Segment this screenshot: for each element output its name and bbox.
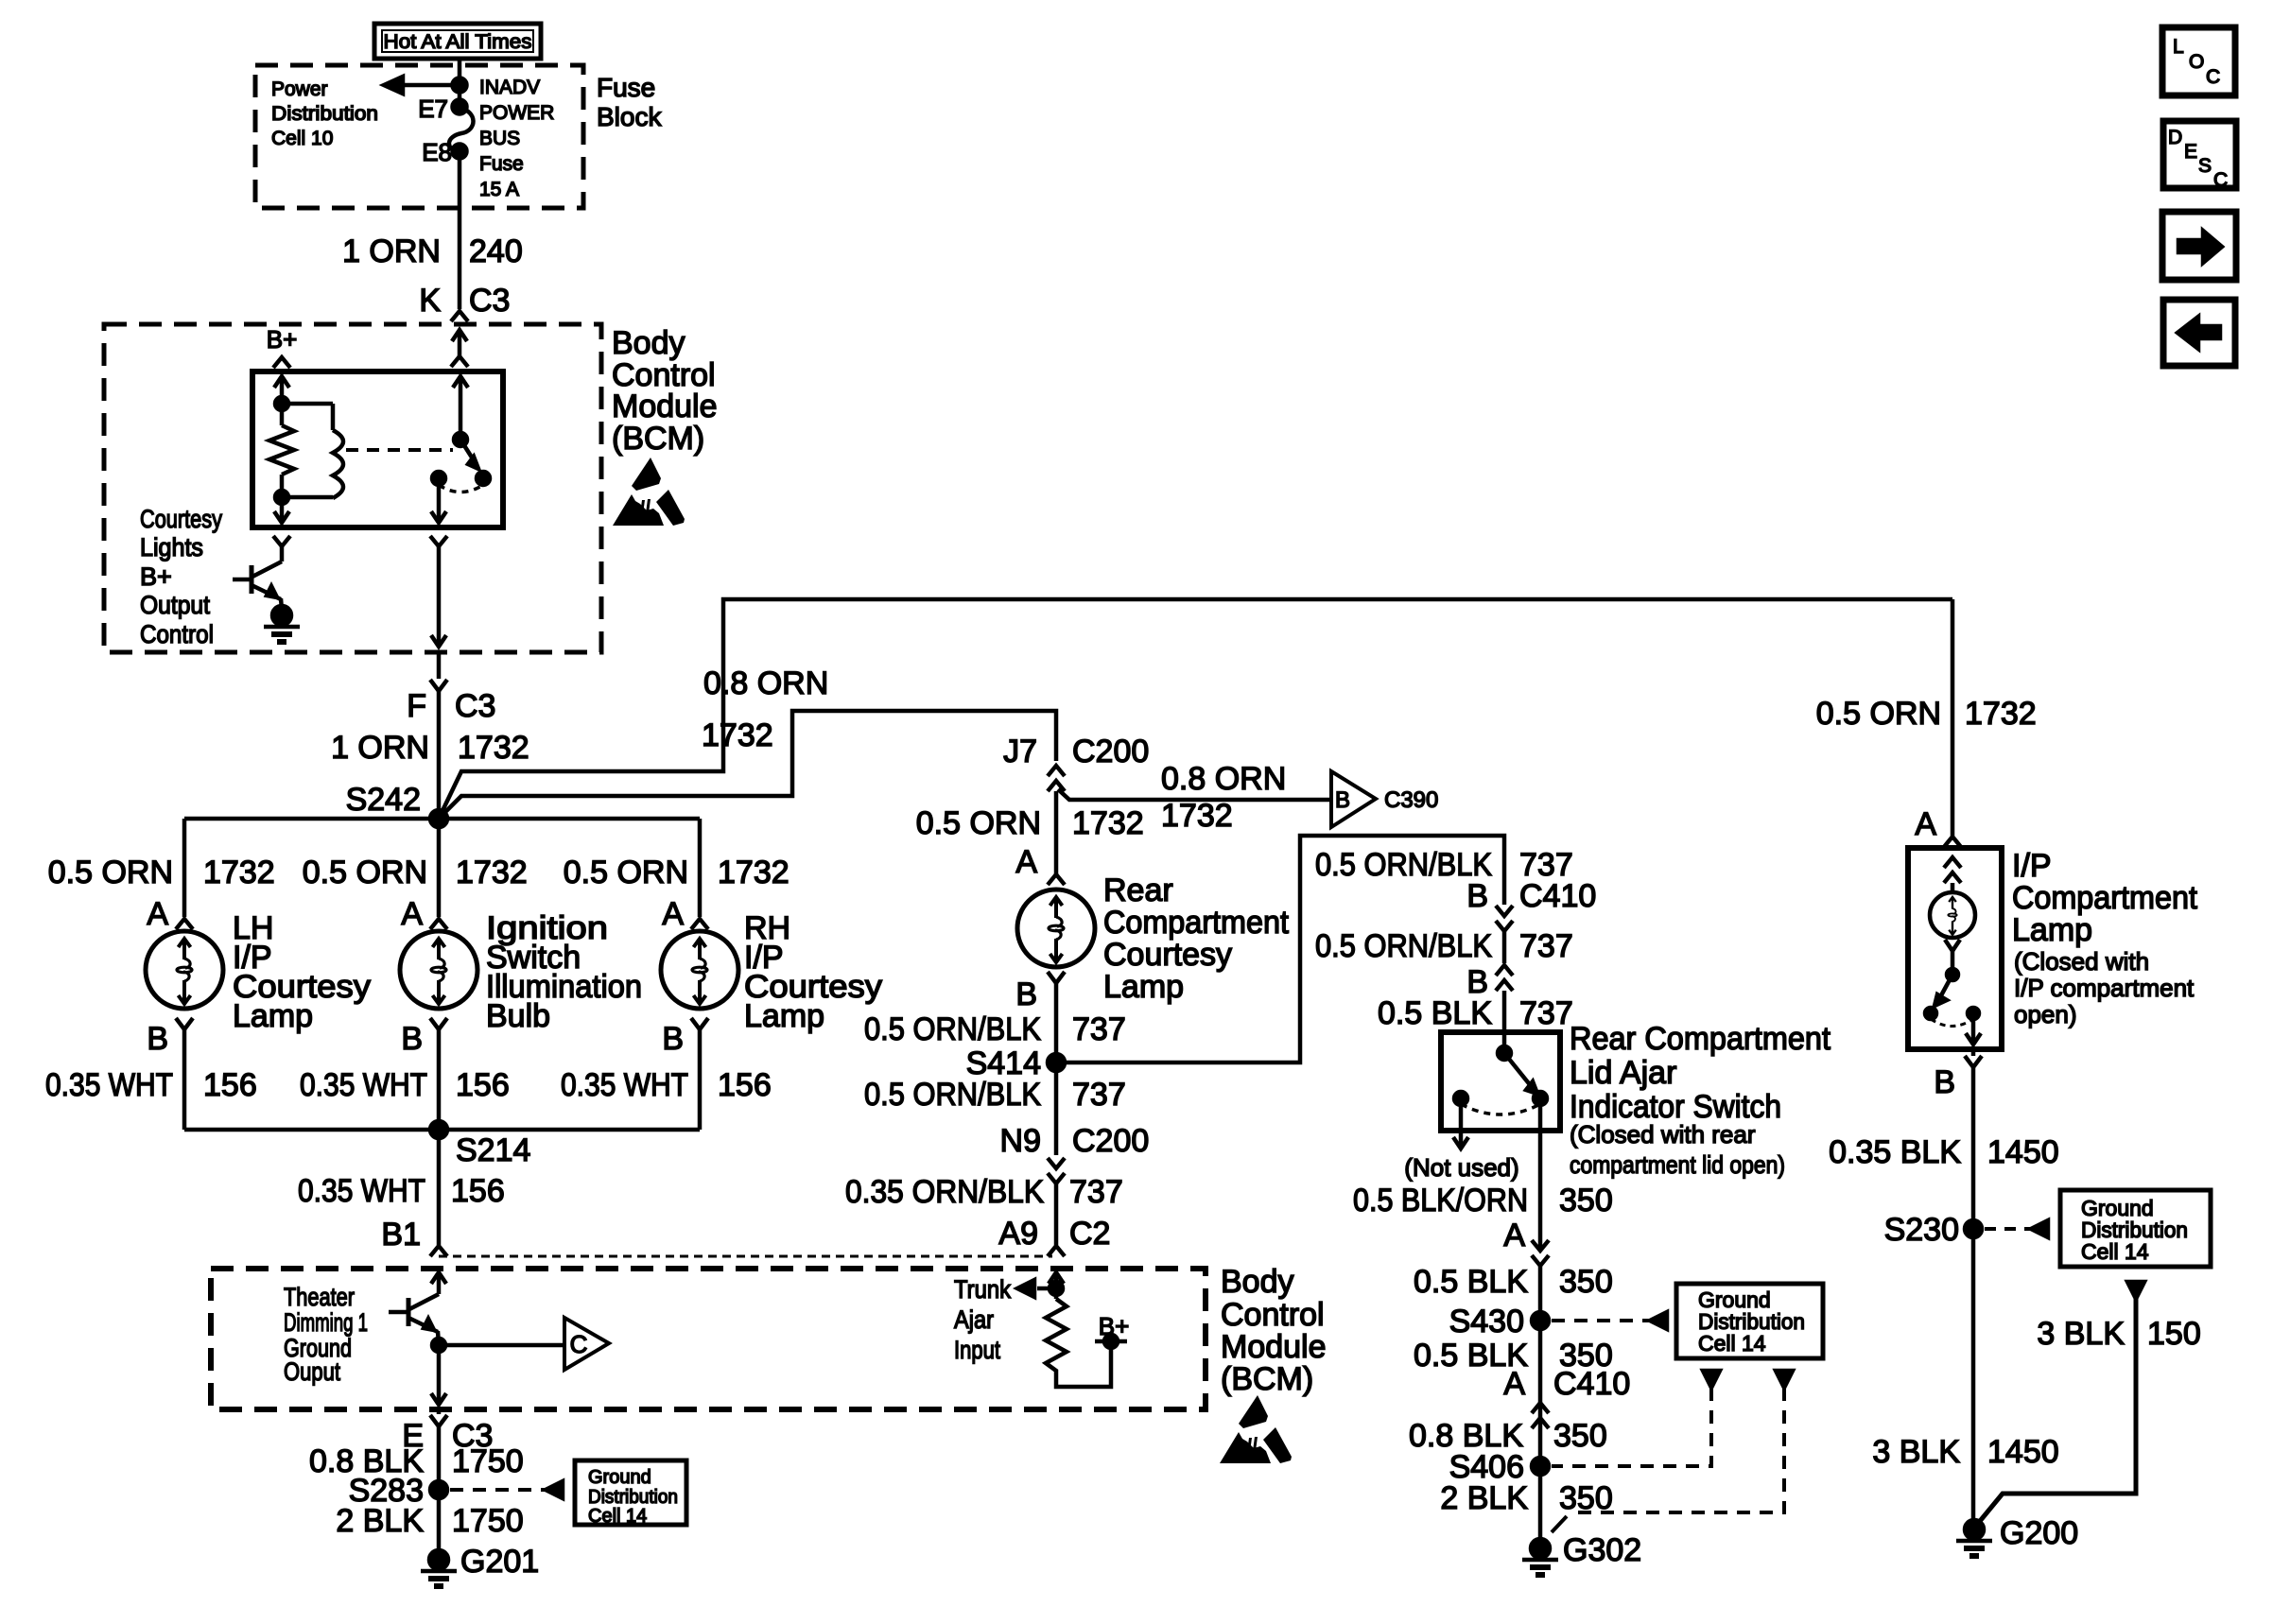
svg-text:C200: C200 <box>1072 1123 1149 1159</box>
connector C390 pin B triangle <box>1331 771 1376 827</box>
svg-text:INADV: INADV <box>479 77 540 98</box>
wire: 3 BLK 150 to G200 <box>1976 1299 2136 1526</box>
svg-text:0.8 ORN: 0.8 ORN <box>1161 761 1286 797</box>
wire: S414 down 0.5 ORN/BLK 737 <box>1054 1063 1059 1155</box>
svg-text:1 ORN: 1 ORN <box>331 730 429 766</box>
splice S414 <box>1048 1054 1065 1071</box>
svg-text:737: 737 <box>1519 995 1573 1031</box>
dashed link to G302 <box>1571 1388 1784 1512</box>
wire: feed to power distribution (arrow left) <box>397 83 460 88</box>
wire: not-used contact stub <box>1459 1098 1464 1148</box>
ignition switch illumination bulb <box>400 931 477 1009</box>
svg-text:compartment lid open): compartment lid open) <box>1570 1150 1785 1179</box>
svg-text:1732: 1732 <box>1161 798 1233 834</box>
svg-text:350: 350 <box>1553 1418 1607 1454</box>
svg-text:L: L <box>2173 36 2184 58</box>
svg-text:Courtesy: Courtesy <box>1103 937 1232 973</box>
splice S430 <box>1532 1312 1549 1329</box>
svg-text:Lights: Lights <box>140 533 203 561</box>
node trunk ajar input <box>1050 1282 1063 1295</box>
signal triangle C <box>564 1318 609 1370</box>
svg-text:A9: A9 <box>998 1216 1038 1252</box>
switch contact (not used) <box>1454 1092 1467 1105</box>
wire: emitter to ground <box>281 598 282 610</box>
svg-text:156: 156 <box>456 1067 510 1103</box>
fuse F1 INADV POWER BUS 15 A <box>449 108 474 152</box>
svg-text:(Closed with rear: (Closed with rear <box>1570 1120 1756 1149</box>
svg-text:0.8 ORN: 0.8 ORN <box>703 665 828 701</box>
svg-text:0.35 WHT: 0.35 WHT <box>561 1067 688 1103</box>
relay box (courtesy lights relay) <box>252 371 503 527</box>
wire: S414 to rear lid switch 0.5 ORN/BLK <box>1056 836 1504 1063</box>
svg-text:0.5 ORN/BLK: 0.5 ORN/BLK <box>1315 847 1492 883</box>
relay coil winding <box>331 404 336 430</box>
svg-text:0.35 WHT: 0.35 WHT <box>298 1173 425 1209</box>
svg-text:B: B <box>401 1021 423 1057</box>
connector chevron A <box>176 919 193 929</box>
relay switch pivot <box>454 433 467 446</box>
svg-text:156: 156 <box>718 1067 772 1103</box>
wire: A9 entry (trunk ajar input) <box>1049 1272 1064 1284</box>
svg-text:Lamp: Lamp <box>744 998 824 1034</box>
node E8 <box>453 145 467 159</box>
svg-text:350: 350 <box>1559 1264 1613 1300</box>
LH I/P courtesy lamp <box>146 931 223 1009</box>
svg-text:0.5 ORN: 0.5 ORN <box>48 855 173 890</box>
svg-text:A: A <box>147 896 168 932</box>
svg-text:Lamp: Lamp <box>1103 969 1184 1005</box>
lamp switch contact (open) <box>1925 1008 1936 1019</box>
connector chevron B <box>176 1018 193 1029</box>
svg-text:B+: B+ <box>267 325 298 354</box>
svg-text:0.35 WHT: 0.35 WHT <box>45 1067 173 1103</box>
svg-text:J7: J7 <box>1003 734 1037 769</box>
dashed link S230 to ground distribution <box>1985 1227 2031 1231</box>
connector chevron B (I/P lamp) <box>1971 1049 1976 1056</box>
button next (right arrow) <box>2162 212 2236 280</box>
wire: coil bottom link <box>282 495 333 500</box>
svg-text:1732: 1732 <box>1965 696 2037 732</box>
svg-text:E7: E7 <box>418 95 448 123</box>
svg-text:C: C <box>2206 66 2220 88</box>
splice S406 <box>1532 1458 1549 1475</box>
svg-text:Module: Module <box>1221 1329 1327 1365</box>
BCM module 2 dashed outline <box>211 1269 1206 1409</box>
svg-text:C3: C3 <box>455 688 495 724</box>
wire to switch <box>1951 951 1955 975</box>
wire: 1 ORN 1732 to S242 <box>437 691 442 819</box>
connector pin B double chevron (switch pigtail) <box>1496 965 1513 976</box>
svg-text:156: 156 <box>203 1067 257 1103</box>
connector C200 pin J7 double chevron <box>1048 766 1065 776</box>
svg-text:0.5 BLK/ORN: 0.5 BLK/ORN <box>1353 1183 1528 1218</box>
switch contact (output) <box>1534 1092 1547 1105</box>
svg-text:G200: G200 <box>2000 1515 2078 1551</box>
transistor Q2 (theater dimming driver) <box>409 1294 439 1309</box>
svg-text:Cell 14: Cell 14 <box>1698 1331 1766 1356</box>
svg-text:Fuse: Fuse <box>597 73 655 102</box>
svg-text:0.5 BLK: 0.5 BLK <box>1378 995 1492 1031</box>
connector chevron A <box>1944 837 1961 847</box>
svg-text:Fuse: Fuse <box>479 153 524 175</box>
svg-text:0.35 WHT: 0.35 WHT <box>300 1067 427 1103</box>
lamp switch contact (output) <box>1968 1008 1979 1019</box>
dashed link S283 to ground distribution <box>450 1488 546 1492</box>
svg-text:1732: 1732 <box>456 855 528 890</box>
connector C410 pin B double chevron <box>1496 906 1513 916</box>
svg-text:0.5 ORN: 0.5 ORN <box>564 855 688 890</box>
svg-text:737: 737 <box>1069 1174 1123 1210</box>
button LOC <box>2162 27 2235 95</box>
resistor (relay coil suppression) <box>280 404 285 425</box>
connector chevron B <box>430 1018 447 1029</box>
svg-text:B: B <box>1335 787 1350 813</box>
dashed contact arc <box>439 485 483 492</box>
svg-text:Body: Body <box>612 325 685 361</box>
svg-text:A: A <box>401 896 423 932</box>
wire: below C200 <box>1054 791 1059 874</box>
wire: 0.5 BLK 737 into switch <box>1502 991 1507 1053</box>
lamp switch pivot <box>1947 969 1958 980</box>
wire: branch 0.8 ORN 1732 to C390 <box>1058 789 1331 800</box>
svg-text:3 BLK: 3 BLK <box>2037 1316 2125 1352</box>
svg-text:C: C <box>2213 169 2228 191</box>
svg-text:Body: Body <box>1221 1264 1294 1300</box>
svg-text:350: 350 <box>1559 1480 1613 1516</box>
svg-text:(BCM): (BCM) <box>1221 1361 1313 1397</box>
svg-text:S242: S242 <box>346 782 421 818</box>
svg-text:C: C <box>570 1330 588 1358</box>
connector chevron inside lamp <box>1945 940 1960 951</box>
wire: coil to driver transistor <box>280 497 285 523</box>
svg-text:Lamp: Lamp <box>233 998 313 1034</box>
svg-text:BUS: BUS <box>479 128 520 149</box>
transistor Q1 (courtesy lights output driver) <box>250 565 254 594</box>
ground G200 <box>1965 1520 1984 1539</box>
switch pivot <box>1498 1046 1511 1060</box>
splice S242 <box>430 810 447 827</box>
svg-text:1 ORN: 1 ORN <box>342 233 441 269</box>
connector C200 pin N9 double chevron <box>1048 1158 1065 1168</box>
svg-text:Courtesy: Courtesy <box>140 505 222 533</box>
node: coil bottom <box>275 491 288 504</box>
wire: switch output 0.5 BLK/ORN 350 <box>1538 1098 1543 1249</box>
svg-text:0.5 BLK: 0.5 BLK <box>1414 1264 1528 1300</box>
svg-text:A: A <box>1503 1366 1525 1402</box>
svg-text:Control: Control <box>140 620 214 648</box>
svg-text:1750: 1750 <box>452 1503 524 1539</box>
svg-text:Control: Control <box>1221 1297 1325 1333</box>
svg-text:C410: C410 <box>1519 878 1596 914</box>
svg-text:Cell 14: Cell 14 <box>588 1506 647 1527</box>
svg-text:737: 737 <box>1072 1077 1126 1113</box>
fuse block dashed outline <box>255 65 583 208</box>
svg-text:Hot At All Times: Hot At All Times <box>384 31 532 53</box>
dashed contact arc <box>1931 1019 1973 1027</box>
svg-text:150: 150 <box>2147 1316 2201 1352</box>
RH I/P courtesy lamp <box>661 931 738 1009</box>
svg-text:B: B <box>147 1021 168 1057</box>
connector chevron rear lamp A <box>1048 874 1065 885</box>
wire: branch 0.5 ORN 1732 (LH I/P courtesy lamp) <box>182 819 187 917</box>
wire: lamp feed internal <box>1944 857 1961 868</box>
svg-text:156: 156 <box>451 1173 505 1209</box>
relay fixed contact <box>432 472 445 485</box>
svg-text:B: B <box>1015 976 1037 1012</box>
svg-text:Ground: Ground <box>588 1467 651 1488</box>
svg-text:Compartment: Compartment <box>1103 905 1290 941</box>
svg-text:1732: 1732 <box>718 855 789 890</box>
svg-text:737: 737 <box>1072 1011 1126 1047</box>
relay switch arm <box>460 440 474 460</box>
svg-text:N9: N9 <box>1000 1123 1041 1159</box>
BCM module dashed outline <box>104 324 601 652</box>
svg-text:0.5 ORN: 0.5 ORN <box>1816 696 1941 732</box>
svg-text:A: A <box>1915 806 1936 842</box>
svg-text:Cell 10: Cell 10 <box>271 128 333 149</box>
wire: rear lamp to S414 0.5 ORN/BLK 737 <box>1054 983 1059 1063</box>
svg-text:1732: 1732 <box>458 730 529 766</box>
svg-text:1750: 1750 <box>452 1443 524 1479</box>
wire: theater dimming ground output down <box>437 1345 442 1405</box>
svg-text:0.5 ORN/BLK: 0.5 ORN/BLK <box>1315 928 1492 964</box>
svg-text:0.5 ORN: 0.5 ORN <box>303 855 427 890</box>
svg-text:Theater: Theater <box>284 1283 355 1311</box>
svg-text:Ajar: Ajar <box>954 1305 994 1334</box>
wire: 0.35 ORN/BLK 737 to BCM pin A9 <box>1054 1183 1059 1245</box>
wire: lamp feed rail <box>184 817 700 821</box>
switch arm <box>1504 1053 1532 1087</box>
svg-text:0.35 BLK: 0.35 BLK <box>1829 1134 1961 1170</box>
wire: relay output down <box>437 478 442 523</box>
wire: fuse output 1 ORN 240 <box>458 151 462 309</box>
svg-text:1732: 1732 <box>203 855 275 890</box>
wire: B1 entry <box>431 1272 446 1284</box>
svg-text:0.5 ORN: 0.5 ORN <box>916 805 1041 841</box>
wire: relay coil branch B+ <box>274 376 289 388</box>
svg-text:1450: 1450 <box>1987 1134 2059 1170</box>
ESD sensitive device symbol <box>613 458 685 526</box>
node E7 <box>453 100 467 114</box>
svg-text:A: A <box>1503 1218 1525 1253</box>
svg-text:Ouput: Ouput <box>284 1357 340 1386</box>
svg-text:Block: Block <box>597 102 662 131</box>
svg-text:Output: Output <box>140 591 210 619</box>
wire: 3 BLK 1450 to G200 <box>1971 1229 1976 1529</box>
svg-text:E8: E8 <box>422 138 452 166</box>
wire: 0.5 BLK 350 to S430 <box>1538 1266 1543 1466</box>
connector double chevron <box>1532 1240 1549 1251</box>
dashed link to S406 <box>1552 1388 1711 1466</box>
wire: relay common feed <box>453 376 468 388</box>
svg-text:Power: Power <box>271 78 328 100</box>
dashed link S430 to ground distribution <box>1552 1319 1650 1322</box>
svg-text:G302: G302 <box>1563 1532 1641 1568</box>
wire: 0.35 WHT 156 to BCM pin B1 <box>437 1130 442 1245</box>
svg-text:G201: G201 <box>460 1544 539 1580</box>
wire: emitter junction <box>438 1331 439 1345</box>
wire from Hot At All Times into fuse block <box>458 59 462 85</box>
ground distribution feed triangle <box>2127 1282 2144 1299</box>
connector C2 pin A9 chevron <box>1048 1246 1065 1256</box>
svg-text:3 BLK: 3 BLK <box>1872 1434 1960 1470</box>
svg-text:2 BLK: 2 BLK <box>336 1503 424 1539</box>
ground G201 <box>429 1550 448 1569</box>
svg-text:Distribution: Distribution <box>271 103 378 125</box>
svg-text:1732: 1732 <box>702 717 773 753</box>
svg-text:K: K <box>419 283 441 319</box>
svg-text:B: B <box>662 1021 684 1057</box>
power label box "Hot At All Times" <box>374 24 541 59</box>
wire: 0.35 WHT 156 <box>437 1029 442 1130</box>
wire E7 stub <box>458 85 462 107</box>
svg-text:open): open) <box>2014 1000 2077 1028</box>
wire: 0.5 ORN/BLK 737 below C410 <box>1502 931 1507 963</box>
connector chevron A <box>691 919 708 929</box>
svg-text:C200: C200 <box>1072 734 1149 769</box>
I/P compartment lamp box <box>1908 848 2002 1049</box>
svg-text:C410: C410 <box>1553 1366 1630 1402</box>
connector chevron rear lamp B <box>1048 972 1065 983</box>
connector chevron B+ into relay <box>273 357 290 368</box>
svg-text:0.5 ORN/BLK: 0.5 ORN/BLK <box>864 1077 1041 1113</box>
relay moving contact <box>477 472 490 485</box>
svg-text:A: A <box>662 896 684 932</box>
wire: 0.35 BLK 1450 to S230 <box>1971 1067 1976 1229</box>
wire: BCM input from C3 pin K <box>452 330 467 341</box>
wire: coil driver to transistor Q1 <box>280 546 285 561</box>
node: theater dimming output <box>432 1339 445 1352</box>
svg-text:POWER: POWER <box>479 102 554 124</box>
svg-text:B: B <box>1466 878 1488 914</box>
svg-text:C390: C390 <box>1384 787 1438 813</box>
svg-text:E: E <box>2184 141 2197 163</box>
ground distribution cell 14 box (S230) <box>2060 1190 2211 1267</box>
svg-text:S: S <box>2198 155 2212 177</box>
svg-text:15 A: 15 A <box>479 179 519 200</box>
connector chevron below relay (coil side) <box>273 536 290 546</box>
ground G302 <box>1531 1539 1550 1558</box>
BCM boundary thin dashed line <box>439 1255 1052 1258</box>
rear compartment lid ajar indicator switch box <box>1441 1032 1560 1131</box>
svg-text:Dimming 1: Dimming 1 <box>284 1308 368 1337</box>
wire: lamp output <box>1971 1013 1976 1044</box>
wire: to G302 <box>1538 1466 1543 1548</box>
svg-text:B+: B+ <box>1099 1312 1130 1340</box>
svg-text:(BCM): (BCM) <box>612 421 704 457</box>
wire: pull-up to B+ <box>1056 1341 1111 1387</box>
svg-text:I/P compartment: I/P compartment <box>2014 974 2195 1002</box>
svg-text:1450: 1450 <box>1987 1434 2059 1470</box>
ground distribution cell 14 box (S283) <box>575 1460 686 1525</box>
svg-text:0.5 ORN/BLK: 0.5 ORN/BLK <box>864 1011 1041 1047</box>
connector C410 pin A double chevron <box>1532 1403 1549 1413</box>
button previous (left arrow) <box>2163 300 2235 366</box>
svg-text:Lid Ajar: Lid Ajar <box>1570 1055 1676 1091</box>
rear compartment courtesy lamp <box>1017 890 1095 967</box>
ground distribution feed triangles <box>1703 1371 1720 1388</box>
svg-text:2 BLK: 2 BLK <box>1440 1480 1528 1516</box>
wire: relay output to BCM pin F <box>437 546 442 647</box>
wire: branch 0.5 ORN 1732 (ignition switch illumination bulb) <box>437 819 442 917</box>
svg-text:D: D <box>2168 127 2182 148</box>
splice S283 <box>430 1481 447 1498</box>
dashed contact arc <box>1461 1104 1540 1114</box>
button DESC <box>2163 121 2236 188</box>
svg-text:B: B <box>1934 1064 1955 1100</box>
wire: S242 lower branch 0.8 ORN 1732 to C200 <box>439 711 1056 819</box>
svg-text:Trunk: Trunk <box>954 1275 1011 1304</box>
wire: down to I/P compartment lamp <box>1951 599 1955 836</box>
svg-text:Distribution: Distribution <box>588 1487 678 1508</box>
node: coil top <box>275 397 288 410</box>
svg-text:S430: S430 <box>1449 1304 1524 1339</box>
svg-text:Input: Input <box>954 1336 1000 1364</box>
splice S214 <box>430 1121 447 1138</box>
svg-text:Cell 14: Cell 14 <box>2081 1239 2149 1264</box>
wire: 0.8 BLK 1750 to S283 <box>437 1426 442 1560</box>
node B+ <box>1095 1339 1127 1344</box>
ground distribution cell 14 box (S430) <box>1676 1284 1823 1358</box>
svg-text:O: O <box>2189 51 2204 73</box>
wire: 0.35 WHT 156 <box>698 1029 703 1130</box>
svg-text:B+: B+ <box>140 562 172 591</box>
svg-text:(Not used): (Not used) <box>1404 1153 1518 1182</box>
ground (BCM internal) <box>272 606 291 625</box>
svg-text:0.35 ORN/BLK: 0.35 ORN/BLK <box>845 1174 1044 1210</box>
I/P compartment lamp bulb <box>1930 892 1975 938</box>
splice S230 <box>1965 1220 1982 1237</box>
connector C3 pin K chevron <box>451 311 468 321</box>
wire: S242 upper branch to I/P compartment lamp 0.5 ORN <box>439 599 1952 819</box>
lamp switch arm <box>1940 975 1952 997</box>
svg-text:Lamp: Lamp <box>2012 912 2092 948</box>
svg-text:C2: C2 <box>1069 1216 1110 1252</box>
svg-text:737: 737 <box>1519 928 1573 964</box>
svg-text:B1: B1 <box>381 1217 421 1253</box>
svg-text:C3: C3 <box>469 283 510 319</box>
node at fuse feed <box>453 78 467 93</box>
svg-text:Compartment: Compartment <box>2012 880 2198 916</box>
svg-text:F: F <box>407 688 426 724</box>
svg-text:350: 350 <box>1559 1183 1613 1218</box>
resistor (trunk ajar pull-up) <box>1046 1299 1067 1373</box>
svg-text:S214: S214 <box>456 1132 530 1168</box>
svg-text:S230: S230 <box>1884 1212 1959 1248</box>
wire: 0.35 WHT 156 <box>182 1029 187 1130</box>
svg-text:A: A <box>1015 844 1037 880</box>
wire: lamp return rail <box>184 1128 700 1132</box>
svg-text:(Closed with: (Closed with <box>2014 947 2149 976</box>
svg-text:Module: Module <box>612 389 718 424</box>
wire: coil top link <box>282 402 333 406</box>
connector C3 pin F chevron <box>437 652 442 679</box>
ESD sensitive device symbol 2 <box>1220 1395 1292 1463</box>
svg-text:I/P: I/P <box>2012 848 2052 884</box>
connector chevron A <box>430 919 447 929</box>
connector chevron B <box>691 1018 708 1029</box>
wire: trunk ajar input arrow <box>1037 1287 1056 1291</box>
svg-text:Rear: Rear <box>1103 872 1173 908</box>
dashed relay actuation link <box>346 448 453 452</box>
connector chevron below relay (output side) <box>430 536 447 546</box>
connector chevron B1 <box>430 1246 447 1256</box>
connector C3 pin E chevron <box>437 1409 442 1414</box>
wire: branch 0.5 ORN 1732 (RH I/P courtesy lamp) <box>698 819 703 917</box>
svg-text:Bulb: Bulb <box>486 998 550 1034</box>
svg-text:1732: 1732 <box>1072 805 1144 841</box>
svg-text:240: 240 <box>469 233 523 269</box>
